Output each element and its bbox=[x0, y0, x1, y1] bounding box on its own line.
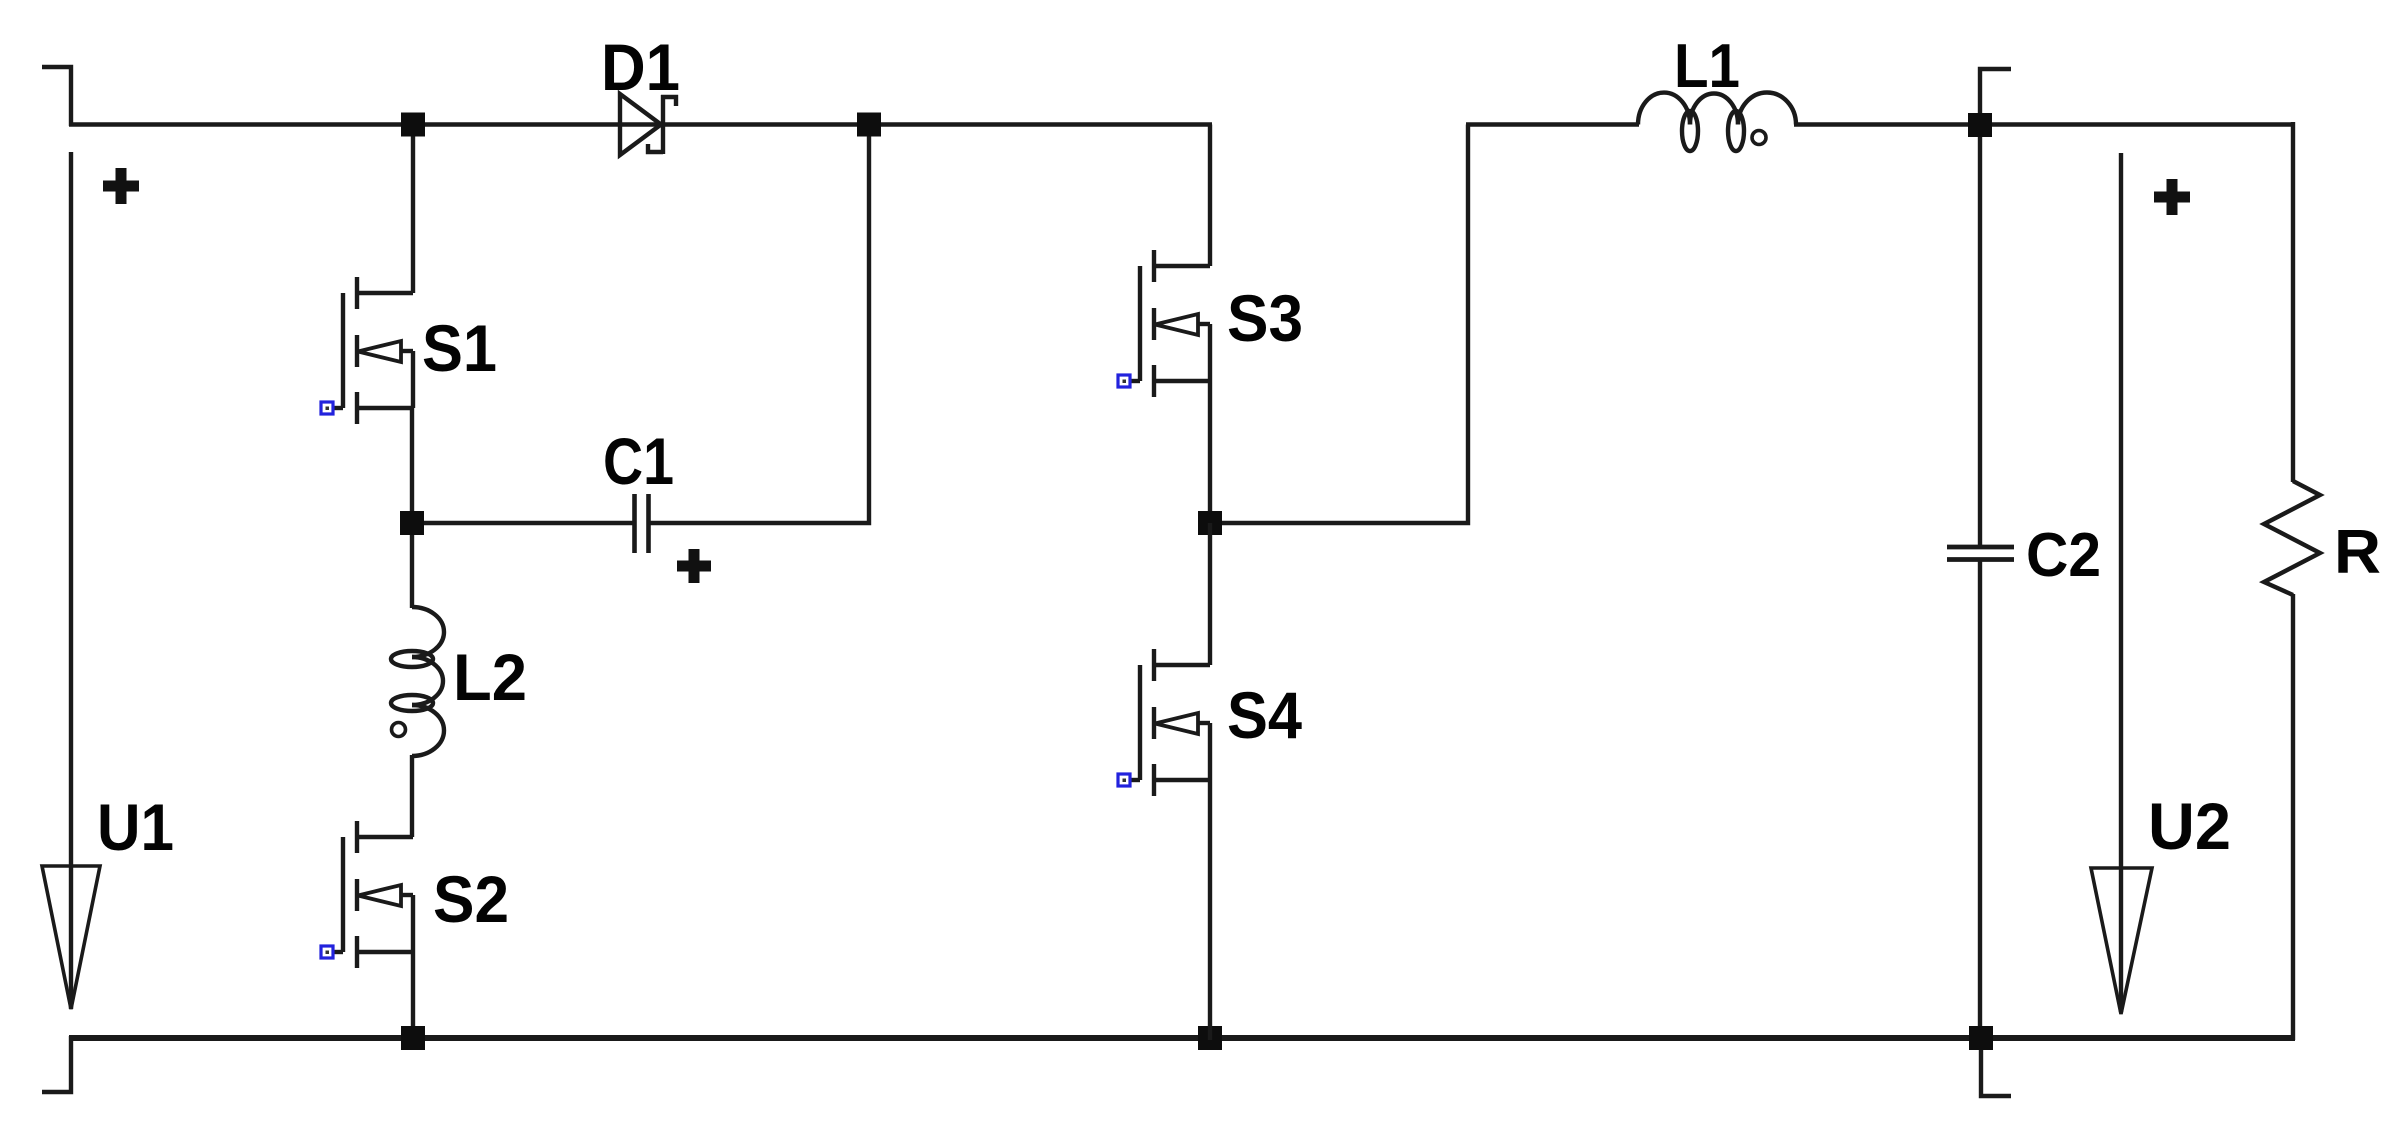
svg-text:C2: C2 bbox=[2026, 521, 2101, 590]
plus sign of U1 bbox=[103, 168, 139, 204]
input port top-left stub bbox=[42, 67, 71, 126]
wire bottom rail bbox=[69, 1035, 2295, 1041]
wire S3 source to mid node bbox=[1208, 381, 1212, 525]
transistor S4 (MOSFET) bbox=[1129, 649, 1210, 796]
transistor S2 (MOSFET) bbox=[332, 821, 413, 968]
diode D1 cathode bar with hooks bbox=[648, 95, 676, 154]
wire top rail bbox=[69, 122, 1212, 126]
svg-text:S1: S1 bbox=[422, 311, 497, 385]
transistor S1 (MOSFET) bbox=[332, 277, 413, 424]
output port top-right stub bbox=[1980, 69, 2011, 126]
node top-left junction bbox=[401, 113, 425, 137]
wire resistor to bottom rail bbox=[2291, 594, 2295, 1040]
wire from D1 node down to C1 bbox=[650, 126, 869, 523]
voltage arrow U2 arrowhead bbox=[2091, 868, 2152, 1014]
gate pin square of S3 bbox=[1118, 375, 1130, 387]
voltage arrow U2 line bbox=[2119, 153, 2123, 1012]
capacitor C2 plates bbox=[1947, 547, 2014, 560]
inductor L1 bbox=[1638, 93, 1796, 152]
wire S2 source to bottom rail bbox=[411, 952, 415, 1040]
svg-text:U1: U1 bbox=[97, 790, 174, 864]
node bottom-left junction bbox=[401, 1026, 425, 1050]
wire S1 drain vertical bbox=[411, 122, 415, 293]
wire L2 to S2 drain bbox=[410, 755, 414, 837]
voltage source U1 arrowhead bbox=[42, 866, 100, 1009]
svg-text:C1: C1 bbox=[603, 424, 674, 498]
plus sign of C1 bbox=[677, 549, 711, 583]
svg-text:S2: S2 bbox=[433, 862, 509, 936]
wire mid node to right riser bbox=[1210, 125, 1468, 524]
svg-text:L2: L2 bbox=[453, 640, 527, 714]
wire right side down to resistor bbox=[2291, 122, 2295, 482]
gate pin square of S4 bbox=[1118, 774, 1130, 786]
wire S4 drain from mid node bbox=[1208, 523, 1212, 665]
wire L1 to right corner bbox=[1794, 122, 2293, 126]
svg-text:S4: S4 bbox=[1227, 678, 1302, 752]
transistor S3 (MOSFET) bbox=[1129, 250, 1210, 397]
wire node A to C1 left plate bbox=[412, 521, 633, 525]
input port bottom-left stub bbox=[42, 1036, 71, 1092]
gate pin square of S1 bbox=[321, 402, 333, 414]
svg-text:U2: U2 bbox=[2148, 789, 2231, 863]
inductor L2 bbox=[391, 607, 444, 756]
wire S1 source to L2 bbox=[410, 408, 414, 608]
diode D1 (Schottky) anode triangle bbox=[620, 94, 661, 155]
node top-middle junction (D1 cathode) bbox=[857, 113, 881, 137]
resistor R zigzag bbox=[2264, 481, 2320, 595]
node bottom-right junction bbox=[1969, 1026, 1993, 1050]
gate pin square of S2 bbox=[321, 946, 333, 958]
wire S3 drain from top rail bbox=[1208, 125, 1212, 267]
node mid (S3/S4 midpoint) bbox=[1198, 511, 1222, 535]
node A (S1 source / C1 / L2) bbox=[400, 511, 424, 535]
voltage source U1 arrow line bbox=[69, 152, 73, 1009]
capacitor C1 plates bbox=[635, 494, 649, 553]
svg-text:S3: S3 bbox=[1227, 281, 1303, 355]
node top-right junction (C2 top) bbox=[1968, 113, 1992, 137]
wire C2 branch top bbox=[1978, 124, 1982, 548]
output port bottom-right stub bbox=[1981, 1038, 2011, 1096]
plus sign of U2 bbox=[2154, 179, 2190, 215]
svg-text:L1: L1 bbox=[1674, 32, 1740, 101]
wire S4 source to bottom rail bbox=[1208, 780, 1212, 1040]
svg-text:R: R bbox=[2334, 518, 2381, 587]
svg-text:D1: D1 bbox=[601, 30, 680, 104]
wire C2 branch bottom bbox=[1978, 559, 1982, 1038]
node bottom-middle junction bbox=[1198, 1026, 1222, 1050]
wire riser to L1 bbox=[1466, 122, 1639, 126]
